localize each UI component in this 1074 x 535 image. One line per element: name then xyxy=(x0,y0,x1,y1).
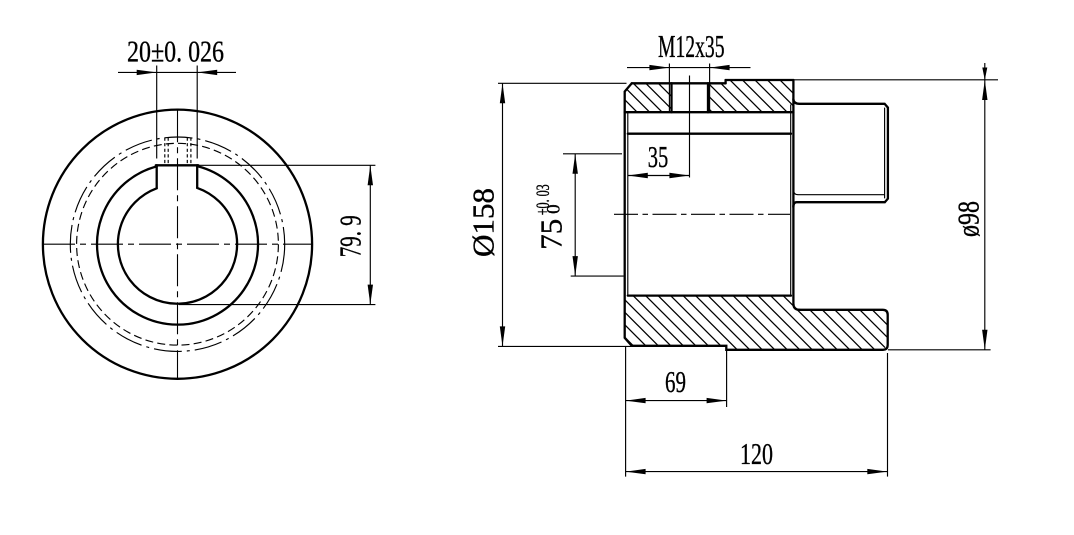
inner circle (bore) with keyway gap xyxy=(118,188,237,304)
dimension 20±0.026 xyxy=(118,34,236,159)
bore entry chamfer line left xyxy=(627,112,629,295)
dimension 35 xyxy=(628,139,690,178)
horizontal centerline xyxy=(43,243,312,245)
hatch left of M12 hole xyxy=(625,83,672,112)
dimension 69 xyxy=(626,350,727,407)
hatch bottom band xyxy=(625,296,888,350)
M12 thread major line left xyxy=(668,64,670,113)
bore chamfer line right xyxy=(790,105,792,296)
bore top line xyxy=(628,133,791,135)
svg-text:35: 35 xyxy=(648,139,669,174)
svg-text:79. 9: 79. 9 xyxy=(333,215,368,257)
dimension M12x35 xyxy=(627,28,751,70)
svg-text:20±0. 026: 20±0. 026 xyxy=(127,34,224,69)
hidden thread lines of M12 hole xyxy=(165,138,191,165)
keyway right side xyxy=(196,165,198,188)
bore bottom line xyxy=(628,294,791,296)
middle circle (counterbore) with keyway gap xyxy=(97,166,258,325)
flange top edge large diameter xyxy=(726,79,794,81)
hidden dashed circle xyxy=(77,143,279,345)
keyway top line xyxy=(156,164,199,166)
svg-text:120: 120 xyxy=(740,436,773,471)
svg-text:0: 0 xyxy=(544,204,565,214)
upper arm inner chamfer lines xyxy=(793,108,884,199)
flange left face with chamfers xyxy=(625,83,632,346)
dimension Ø98 xyxy=(794,63,999,350)
keyway left side xyxy=(156,165,158,188)
svg-text:69: 69 xyxy=(665,364,686,399)
outer circle xyxy=(43,110,312,379)
M12 thread major line right xyxy=(709,64,711,113)
bolt/pitch dash-dot circle xyxy=(70,137,284,351)
dimension 79.9 xyxy=(179,165,375,304)
bottom band outline xyxy=(632,310,888,350)
main axis centerline xyxy=(614,213,790,215)
dimension Ø158 xyxy=(466,83,632,346)
svg-text:Ø158: Ø158 xyxy=(466,188,501,257)
dimension 75 +0.03/0 xyxy=(533,154,624,276)
top band bottom (counterbore shoulder) xyxy=(625,111,794,113)
vertical centerline xyxy=(177,110,179,379)
hatch right of M12 hole xyxy=(708,80,793,112)
M12 tapped hole left wall xyxy=(670,83,672,112)
svg-text:ø98: ø98 xyxy=(951,201,986,237)
step on flange OD xyxy=(724,80,726,83)
flange top edge small diameter xyxy=(632,82,726,84)
svg-text:75: 75 xyxy=(534,219,569,250)
flange right face xyxy=(793,80,799,310)
M12 tapped hole right wall xyxy=(707,83,709,112)
svg-text:M12x35: M12x35 xyxy=(658,28,725,64)
dimension 120 xyxy=(626,347,888,477)
M12 hole centerline xyxy=(689,76,691,178)
upper arm (rear cylinder) outline xyxy=(793,99,888,207)
